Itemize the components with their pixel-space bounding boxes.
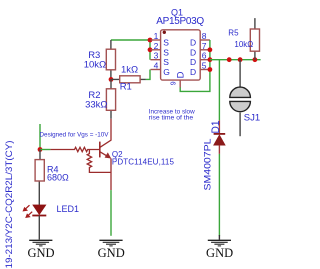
pin 4 stub — [151, 69, 161, 71]
node junction pin 2 — [148, 47, 153, 52]
resistor R2 — [85, 79, 116, 118]
svg-text:6: 6 — [202, 51, 207, 61]
svg-text:D: D — [190, 57, 196, 67]
wire base net — [40, 149, 50, 151]
svg-text:1kΩ: 1kΩ — [121, 65, 138, 76]
resistor R5 — [228, 18, 259, 60]
svg-text:rise time of the: rise time of the — [149, 115, 194, 121]
svg-text:PDTC114EU,115: PDTC114EU,115 — [112, 158, 175, 167]
svg-text:R1: R1 — [120, 82, 132, 93]
svg-text:680Ω: 680Ω — [47, 172, 69, 182]
pin 1 marker dot — [163, 31, 166, 34]
svg-text:LED1: LED1 — [57, 204, 80, 214]
base lead and series resistor zigzag — [50, 147, 99, 151]
svg-text:SJ1: SJ1 — [244, 112, 260, 123]
node junction drain net b (SJ1) — [238, 57, 243, 62]
emission arrow 1 — [25, 205, 30, 210]
svg-text:4: 4 — [154, 61, 159, 71]
emitter line with arrow — [100, 152, 108, 157]
pin 1 stub — [151, 39, 161, 41]
svg-text:1: 1 — [154, 31, 159, 41]
svg-text:5: 5 — [202, 61, 207, 71]
svg-text:10kΩ: 10kΩ — [234, 40, 253, 49]
resistor R3 — [84, 40, 116, 79]
pin 9 stub — [179, 80, 181, 88]
svg-text:GND: GND — [98, 246, 125, 260]
solder jumper SJ1 — [230, 60, 260, 137]
svg-text:9: 9 — [171, 81, 178, 85]
node junction base/R4 — [38, 147, 43, 152]
pin 3 stub — [151, 59, 161, 61]
svg-text:S: S — [163, 38, 169, 48]
ground GND2 — [98, 240, 125, 259]
pin 2 stub — [151, 49, 161, 51]
pin 6 stub — [200, 59, 210, 61]
svg-text:S: S — [163, 47, 169, 57]
resistor R4 — [35, 150, 69, 205]
node junction pin 5 — [208, 67, 213, 72]
wire left vertical connecting pins 1-3 — [149, 40, 151, 60]
svg-text:7: 7 — [202, 41, 207, 51]
base-emitter resistor zigzag — [87, 150, 111, 173]
svg-text:GND: GND — [206, 246, 233, 260]
IC Q1 body — [161, 30, 201, 80]
svg-text:D1: D1 — [210, 121, 222, 134]
svg-text:8: 8 — [202, 31, 207, 41]
transistor Q2 PDTC114EU,115 — [50, 119, 174, 190]
svg-text:D: D — [176, 71, 187, 78]
svg-text:R5: R5 — [228, 29, 239, 38]
ground GND1 — [27, 240, 54, 259]
svg-text:GND: GND — [27, 246, 54, 260]
node junction pin 1 — [148, 38, 153, 43]
wire from drain net down to D1 — [218, 60, 220, 121]
node junction drain net a — [227, 57, 232, 62]
svg-text:AP15P03Q: AP15P03Q — [156, 16, 204, 27]
pin 7 stub — [200, 49, 210, 51]
svg-text:D: D — [190, 38, 196, 48]
resistor R1 — [111, 65, 146, 93]
wire pin 4 net to R1 — [146, 70, 150, 80]
op-amp U1 placeholder: actually IC Q1 AP15P03Q — [151, 7, 210, 87]
node junction pin 6 — [208, 57, 213, 62]
svg-text:19-213/Y2C-CQ2R2L/3T(CY): 19-213/Y2C-CQ2R2L/3T(CY) — [4, 141, 15, 269]
wire top rail from R3 to pin 1 — [111, 39, 150, 41]
svg-text:D: D — [190, 67, 196, 77]
node junction pin 7 — [208, 47, 213, 52]
wire emitter to GND2 — [110, 190, 112, 236]
wire right vertical pins 8-5 down to pin 9 loop — [180, 40, 210, 91]
node junction drain net c (R5) — [253, 57, 258, 62]
svg-text:D: D — [190, 47, 196, 57]
svg-text:33kΩ: 33kΩ — [85, 100, 107, 111]
wire drain net to R5 — [210, 59, 261, 61]
LED LED1 — [23, 204, 80, 240]
svg-text:10kΩ: 10kΩ — [84, 59, 106, 70]
wire gate net stub above junction — [39, 124, 41, 150]
svg-text:Designed for Vgs = -10V: Designed for Vgs = -10V — [40, 131, 110, 138]
svg-text:2: 2 — [154, 41, 159, 51]
ground GND3 — [206, 235, 233, 260]
emission arrow 2 — [27, 212, 32, 217]
pin 5 stub — [200, 69, 210, 71]
svg-text:3: 3 — [154, 51, 159, 61]
diode D1 SM4007PL — [202, 120, 225, 190]
pin 8 stub — [200, 39, 210, 41]
collector line — [100, 119, 111, 148]
svg-text:SM4007PL: SM4007PL — [202, 139, 213, 191]
svg-text:G: G — [163, 67, 170, 77]
wire from D1 to GND3 — [218, 154, 220, 236]
base bar — [99, 142, 101, 158]
svg-text:S: S — [163, 57, 169, 67]
node junction R3/R2/R1 — [109, 77, 114, 82]
